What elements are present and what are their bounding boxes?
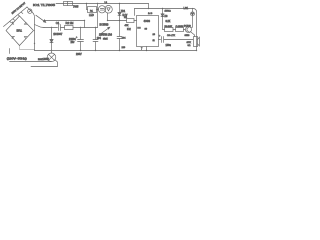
- resistor R2: [65, 26, 74, 30]
- transistor T1: [184, 26, 192, 32]
- AC neutral wire: [10, 49, 52, 62]
- wire branch to C1: [35, 25, 45, 28]
- switch S1 lever: [36, 15, 46, 22]
- diode D1: [50, 27, 53, 51]
- svg-text:14 8: 14 8: [148, 13, 153, 15]
- svg-text:C1: C1: [56, 21, 60, 25]
- svg-text:BC548: BC548: [184, 26, 191, 28]
- svg-text:C6 4.7K: C6 4.7K: [167, 35, 175, 37]
- LED2: [191, 8, 195, 27]
- bottom rail: [35, 50, 198, 51]
- svg-text:max100W: max100W: [38, 58, 50, 61]
- wire A-B link: [84, 21, 86, 28]
- svg-text:8.2K: 8.2K: [166, 21, 171, 23]
- svg-text:R1: R1: [90, 10, 94, 12]
- rail step: [135, 4, 197, 51]
- svg-text:BR1: BR1: [17, 28, 23, 32]
- riser wire: [97, 4, 99, 28]
- capacitor C5: [117, 21, 122, 52]
- top rail: [56, 3, 149, 4]
- svg-text:C-100M: C-100M: [176, 26, 184, 28]
- svg-text:IC1 TL7805: IC1 TL7805: [33, 3, 56, 7]
- resistor R8: [165, 28, 174, 32]
- svg-text:220: 220: [122, 47, 126, 49]
- svg-text:100u: 100u: [166, 44, 172, 47]
- speaker LS1: [194, 37, 200, 47]
- AC input wire (diagonal): [4, 7, 28, 27]
- capacitor C4: [159, 35, 164, 43]
- resistor R1: [87, 4, 97, 13]
- svg-text:4093: 4093: [144, 19, 151, 23]
- regulator IC1: [64, 2, 73, 6]
- IC2 ground stub: [146, 47, 147, 52]
- wire apex to bridge: [27, 7, 35, 31]
- svg-text:1W8Ω: 1W8Ω: [165, 11, 171, 13]
- svg-text:(230V~50Hz): (230V~50Hz): [7, 56, 27, 60]
- bridge right vertical: [34, 31, 35, 51]
- svg-text:10: 10: [153, 34, 156, 36]
- svg-text:104: 104: [97, 37, 102, 40]
- resistor R9: [176, 28, 184, 32]
- pin marker: [137, 27, 141, 29]
- wire A: [44, 20, 85, 22]
- svg-text:7: 7: [141, 48, 143, 51]
- svg-text:230V AC INPUT: 230V AC INPUT: [11, 1, 27, 15]
- svg-text:ZD1: ZD1: [121, 11, 126, 13]
- bridge bottom stub: [20, 46, 35, 50]
- svg-text:230V: 230V: [76, 53, 82, 56]
- capacitor C1: [59, 25, 65, 31]
- svg-text:8Ω: 8Ω: [188, 45, 191, 47]
- wire B right: [73, 27, 98, 29]
- svg-text:7805: 7805: [73, 6, 79, 9]
- wire T1 emitter: [190, 32, 194, 37]
- wire B left: [44, 27, 58, 29]
- svg-text:LED: LED: [89, 14, 94, 17]
- svg-text:R9-10K: R9-10K: [165, 26, 173, 28]
- diode D3: [161, 9, 165, 30]
- svg-text:1N4007: 1N4007: [53, 32, 63, 36]
- switch S2 start: [101, 27, 110, 33]
- svg-text:D3: D3: [165, 16, 169, 18]
- lamp B1: [47, 50, 56, 62]
- wire T1 collector: [191, 26, 193, 28]
- bridge rectifier BR1: [6, 16, 34, 46]
- svg-text:R2 1M: R2 1M: [66, 21, 75, 25]
- svg-text:LS1: LS1: [184, 6, 189, 10]
- svg-text:IC2: IC2: [127, 28, 131, 31]
- IC2 4093: [137, 16, 159, 47]
- svg-text:start: start: [103, 38, 108, 41]
- fuse F1: [28, 9, 32, 13]
- wire to IC2: [134, 20, 137, 22]
- svg-text:8550: 8550: [185, 35, 191, 37]
- capacitor C2: [76, 27, 84, 51]
- svg-text:11: 11: [153, 40, 156, 42]
- wire: [173, 29, 176, 31]
- svg-text:BC558B: BC558B: [100, 23, 109, 26]
- svg-text:25v: 25v: [71, 41, 76, 44]
- LED1: [105, 6, 113, 14]
- wire C: [107, 13, 127, 21]
- lamp L2: [97, 6, 106, 13]
- svg-text:SPK: SPK: [187, 42, 192, 44]
- AC loop wire: [31, 60, 58, 67]
- resistor R4: [127, 19, 135, 23]
- capacitor C3: [93, 27, 98, 51]
- svg-text:30: 30: [145, 28, 148, 30]
- svg-text:104: 104: [122, 37, 126, 39]
- wire to speaker: [164, 39, 193, 41]
- svg-text:1N4148 1R4: 1N4148 1R4: [99, 35, 113, 37]
- zener ZD1: [118, 4, 121, 22]
